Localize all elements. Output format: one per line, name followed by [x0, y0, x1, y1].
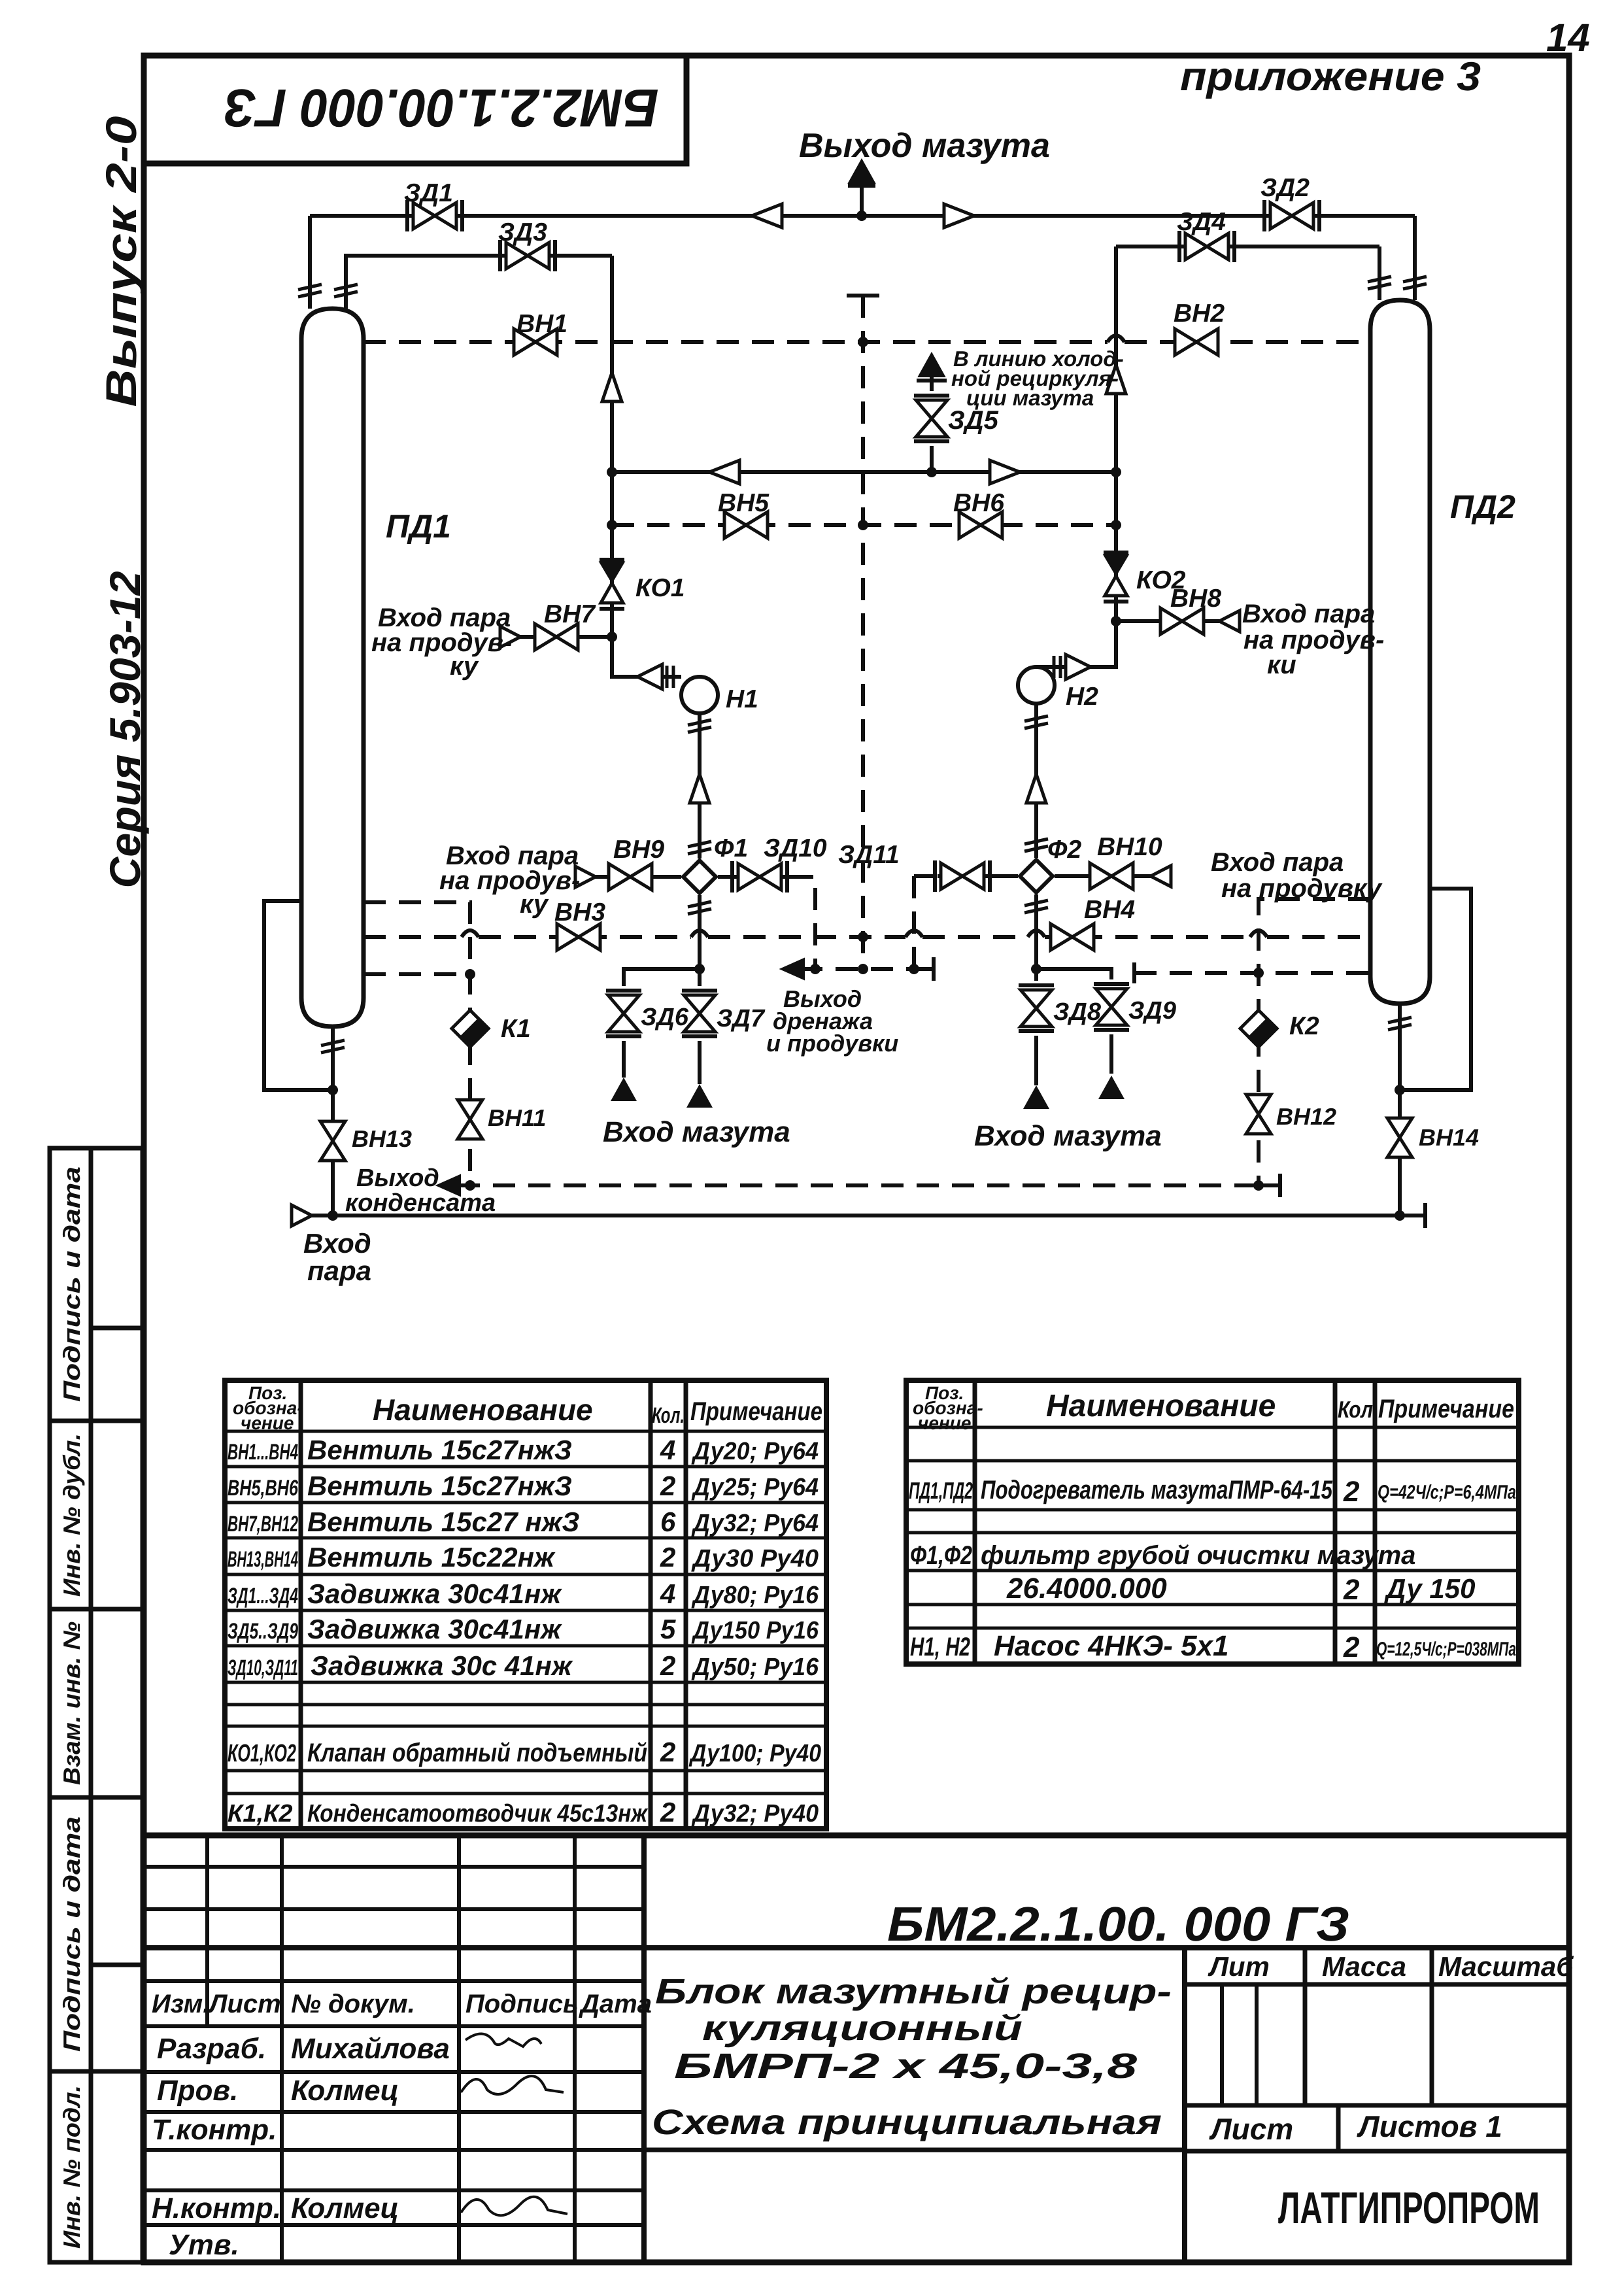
- pump line arrow right: [1026, 774, 1046, 803]
- gate valve ЗД7: [682, 991, 717, 1036]
- check valve КО1: [600, 560, 624, 609]
- svg-text:Н1: Н1: [726, 685, 758, 713]
- dashed: ПД1 upper jacket drain: [364, 902, 470, 1185]
- svg-text:Утв.: Утв.: [169, 2229, 239, 2261]
- svg-text:Схема принципиальная: Схема принципиальная: [652, 2103, 1162, 2142]
- gate valve ЗД10: [732, 861, 787, 892]
- valve ВН10: [1090, 863, 1133, 889]
- svg-text:ВН7,ВН12: ВН7,ВН12: [228, 1512, 298, 1537]
- svg-text:Ду20; Ру64: Ду20; Ру64: [691, 1438, 819, 1465]
- pipe: fuel oil outlet header: [310, 214, 1415, 218]
- valve ВН6: [959, 512, 1002, 538]
- svg-text:Ф2: Ф2: [1047, 836, 1081, 864]
- svg-text:ЗД6: ЗД6: [641, 1004, 689, 1031]
- signatures: [465, 2033, 541, 2047]
- pipe: ЗД11 stub: [938, 874, 1018, 878]
- svg-text:ЗД1: ЗД1: [404, 179, 453, 207]
- svg-text:2: 2: [660, 1470, 675, 1501]
- svg-text:ЗД5..ЗД9: ЗД5..ЗД9: [228, 1619, 298, 1644]
- pipe: fuel inlet ЗД6 ЗД7: [624, 969, 700, 1084]
- junction: ВН6 line at right riser: [1111, 520, 1121, 530]
- flange ПД2 nozzle 1: [1368, 277, 1391, 289]
- svg-text:Выпуск 2-0: Выпуск 2-0: [97, 116, 145, 407]
- svg-text:ВН9: ВН9: [613, 836, 664, 864]
- pipe: fuel oil outlet branch up: [848, 182, 875, 216]
- cap tick on condensate line: [1259, 1174, 1280, 1197]
- svg-text:БМ2.2.1.00.000 ГЗ: БМ2.2.1.00.000 ГЗ: [224, 78, 659, 137]
- junction: ВН1-ВН2 line at center header: [858, 337, 868, 347]
- dashed: ПД1 lower jacket drain: [364, 972, 470, 976]
- svg-text:Q=12,5Ч/с;Р=038МПа: Q=12,5Ч/с;Р=038МПа: [1376, 1639, 1516, 1660]
- outlet arrow recirc up: [919, 353, 945, 377]
- svg-text:Масса: Масса: [1322, 1951, 1406, 1982]
- inlet arrow ВН10: [1151, 866, 1171, 887]
- svg-text:К1: К1: [501, 1015, 531, 1043]
- svg-text:5: 5: [660, 1614, 676, 1644]
- svg-text:Ду50; Ру16: Ду50; Ру16: [691, 1654, 819, 1681]
- fuel inlet arrow ЗД8: [1023, 1085, 1049, 1109]
- pipe: ПД2 condensate drop: [1398, 1004, 1402, 1215]
- valve ВН1: [514, 329, 557, 355]
- jacket box ПД1: [264, 901, 333, 1090]
- gate valve ЗД8: [1019, 985, 1054, 1031]
- dashed: ВН1-ВН2 upper drain line: [364, 340, 1370, 344]
- valve ВН14: [1387, 1118, 1412, 1157]
- valve ВН9: [609, 864, 652, 890]
- svg-text:Вентиль 15с22нж: Вентиль 15с22нж: [307, 1542, 556, 1572]
- junction: drain line at ЗД11 drop: [909, 964, 919, 974]
- svg-text:2: 2: [660, 1797, 675, 1827]
- svg-text:Подпись и дата: Подпись и дата: [58, 1816, 85, 2052]
- gate valve ЗД4: [1179, 231, 1234, 262]
- pipe: ЗД10 stub: [718, 875, 791, 879]
- dashed: central blowdown header: [861, 296, 865, 969]
- svg-text:ЛАТГИПРОПРОМ: ЛАТГИПРОПРОМ: [1278, 2183, 1540, 2233]
- svg-text:2: 2: [660, 1737, 675, 1767]
- svg-text:ЗД10: ЗД10: [764, 834, 827, 862]
- svg-text:ВН10: ВН10: [1097, 833, 1162, 861]
- dashed pipes: [364, 296, 1370, 1185]
- svg-text:Примечание: Примечание: [1378, 1395, 1514, 1423]
- svg-text:на продув-: на продув-: [371, 628, 512, 657]
- pipe: ВН10 steam purge line: [1055, 874, 1151, 878]
- svg-text:2: 2: [660, 1542, 675, 1572]
- steam trap К2: [1240, 1010, 1277, 1047]
- svg-text:14: 14: [1546, 16, 1590, 59]
- stamp labels: [58, 1166, 85, 2249]
- valve ВН5: [724, 512, 768, 538]
- svg-text:Дата: Дата: [579, 1990, 652, 2018]
- svg-text:ЗД1...ЗД4: ЗД1...ЗД4: [228, 1584, 298, 1608]
- flow arrow recirc left: [709, 460, 739, 484]
- flange ПД1 nozzle 2: [334, 284, 358, 297]
- pipe: pump Н2 discharge column: [1034, 704, 1038, 858]
- valve ВН12: [1246, 1095, 1271, 1134]
- svg-text:БМРП-2 х 45,0-3,8: БМРП-2 х 45,0-3,8: [674, 2047, 1137, 2086]
- svg-text:Подпись: Подпись: [465, 1990, 579, 2018]
- pump Н2 suction check: [1054, 654, 1091, 679]
- svg-text:Выход: Выход: [356, 1164, 439, 1192]
- dashed: ПД2 lower jacket drain with cap: [1134, 971, 1370, 975]
- junction: drain line at center header: [858, 964, 868, 974]
- gate valve ЗД3: [500, 240, 555, 271]
- svg-text:Инв. № подл.: Инв. № подл.: [58, 2085, 85, 2249]
- svg-text:ВН5: ВН5: [718, 489, 770, 517]
- dashed: drain collect line: [800, 967, 914, 971]
- inlet arrow steam main: [292, 1205, 312, 1226]
- svg-text:Ду30 Ру40: Ду30 Ру40: [691, 1545, 819, 1572]
- svg-text:ЗД10,ЗД11: ЗД10,ЗД11: [228, 1656, 298, 1680]
- inlet arrow ВН9: [575, 866, 596, 887]
- pipe: Ф1 outlet down: [698, 895, 702, 969]
- pump Н2: [1018, 667, 1055, 704]
- check valve КО2: [1104, 552, 1128, 602]
- junction: drain line at ЗД10 drop: [810, 964, 820, 974]
- inlet arrow ВН8: [1219, 611, 1240, 632]
- filter Ф2: [1020, 860, 1053, 892]
- fuel inlet arrow ЗД7: [686, 1084, 713, 1108]
- svg-text:Вход пара: Вход пара: [1242, 600, 1375, 628]
- pipe: ЗД4 line: [1116, 246, 1379, 300]
- gate valve ЗД1: [407, 200, 462, 231]
- flange Ф1 inlet: [688, 841, 711, 854]
- svg-text:Колмец: Колмец: [291, 2192, 399, 2224]
- flange Ф2 inlet: [1024, 839, 1048, 851]
- svg-text:ПД1,ПД2: ПД1,ПД2: [909, 1477, 973, 1504]
- junction: К1 line at condensate header: [465, 1180, 475, 1191]
- svg-text:ЗД11: ЗД11: [838, 841, 900, 869]
- svg-text:ЗД2: ЗД2: [1260, 174, 1310, 202]
- svg-text:Насос 4НКЭ- 5х1: Насос 4НКЭ- 5х1: [994, 1630, 1229, 1662]
- svg-text:Лит: Лит: [1208, 1951, 1270, 1982]
- junction: ПД2 drop at steam main: [1395, 1210, 1405, 1221]
- valve ВН2: [1175, 329, 1218, 355]
- svg-text:пара: пара: [307, 1255, 371, 1286]
- svg-text:Ду32; Ру64: Ду32; Ру64: [691, 1510, 819, 1537]
- junction: ВН8 tee: [1111, 616, 1121, 626]
- pump line arrow left: [690, 774, 709, 803]
- svg-text:ВН1...ВН4: ВН1...ВН4: [228, 1440, 298, 1465]
- wire: ПД2 right nozzle riser: [1413, 216, 1417, 300]
- gate valve ЗД11: [935, 860, 990, 892]
- junction: ВН5 line at left riser: [607, 520, 617, 530]
- svg-text:Лист: Лист: [207, 1990, 281, 2018]
- svg-text:Листов 1: Листов 1: [1357, 2109, 1502, 2143]
- wire: ПД1 left nozzle riser: [308, 216, 312, 309]
- fuel inlet arrow ЗД6: [611, 1078, 637, 1101]
- svg-text:ВН13: ВН13: [352, 1125, 412, 1152]
- pipe: Ф2 outlet down: [1034, 894, 1038, 969]
- svg-text:Ду80; Ру16: Ду80; Ру16: [691, 1582, 819, 1609]
- pipe: steam inlet main: [307, 1203, 1425, 1228]
- outlet arrow fuel oil up: [849, 160, 875, 183]
- svg-text:Q=42Ч/с;Р=6,4МПа: Q=42Ч/с;Р=6,4МПа: [1378, 1482, 1516, 1503]
- schematic labels: [303, 127, 1515, 1286]
- svg-text:на продувку: на продувку: [1221, 874, 1383, 903]
- svg-text:ВН6: ВН6: [953, 489, 1004, 517]
- flange Ф1 outlet: [688, 902, 711, 914]
- svg-text:Ду 150: Ду 150: [1384, 1573, 1475, 1604]
- svg-text:КО1,КО2: КО1,КО2: [228, 1740, 296, 1767]
- flow arrow left header: [752, 204, 782, 228]
- junction: ПД1 drop at jacket: [328, 1085, 338, 1095]
- svg-text:ЗД3: ЗД3: [498, 218, 547, 246]
- svg-text:2: 2: [1343, 1574, 1360, 1606]
- svg-text:ВН8: ВН8: [1170, 585, 1221, 613]
- svg-text:Пров.: Пров.: [157, 2075, 238, 2107]
- dashed: condensate outlet line: [458, 1183, 1259, 1187]
- svg-text:Ду100; Ру40: Ду100; Ру40: [688, 1740, 821, 1767]
- drain outlet arrow: [781, 959, 804, 979]
- svg-text:куляционный: куляционный: [702, 2009, 1023, 2048]
- pipe: ВН8 steam purge line: [1116, 619, 1219, 623]
- flange ПД2 nozzle 2: [1403, 277, 1427, 289]
- svg-text:Выход мазута: Выход мазута: [799, 127, 1050, 165]
- cap tick left end: [1132, 962, 1136, 983]
- junction: ПД1 drop at steam main: [328, 1210, 338, 1221]
- svg-text:Изм.: Изм.: [152, 1990, 210, 2018]
- svg-text:ЗД7: ЗД7: [717, 1005, 766, 1032]
- svg-text:Вентиль 15с27 нжЗ: Вентиль 15с27 нжЗ: [307, 1506, 580, 1537]
- svg-text:Задвижка 30с41нж: Задвижка 30с41нж: [307, 1614, 562, 1644]
- svg-text:Ф1,Ф2: Ф1,Ф2: [910, 1541, 972, 1570]
- riser arrow left: [602, 373, 622, 401]
- junction: ВН3-ВН4 line at center header: [858, 932, 868, 942]
- svg-text:Колмец: Колмец: [291, 2075, 399, 2107]
- jump arcs on dashed lines: [462, 335, 1267, 937]
- svg-text:и продувки: и продувки: [766, 1030, 898, 1057]
- flow arrow right header: [944, 204, 974, 228]
- svg-text:Т.контр.: Т.контр.: [152, 2114, 277, 2146]
- svg-text:Блок мазутный рецир-: Блок мазутный рецир-: [655, 1972, 1172, 2011]
- svg-text:№ докум.: № докум.: [291, 1990, 415, 2018]
- steam trap К1: [452, 1010, 488, 1047]
- svg-text:ВН3: ВН3: [554, 898, 605, 926]
- svg-text:Ф1: Ф1: [714, 834, 748, 862]
- svg-text:Наименование: Наименование: [373, 1393, 593, 1427]
- svg-text:Вход пара: Вход пара: [1211, 848, 1344, 877]
- svg-text:Подпись и дата: Подпись и дата: [58, 1166, 85, 1402]
- flange ПД2 bottom: [1388, 1017, 1412, 1030]
- svg-text:К1,К2: К1,К2: [228, 1800, 293, 1827]
- pipe: ВН9 steam purge line: [595, 875, 681, 879]
- svg-text:26.4000.000: 26.4000.000: [1006, 1572, 1167, 1605]
- junction: Ф2 outlet tee: [1031, 964, 1041, 974]
- svg-text:ВН14: ВН14: [1419, 1124, 1479, 1151]
- riser arrow right: [1106, 365, 1126, 394]
- pump Н1: [681, 677, 718, 713]
- valve ВН4: [1051, 924, 1094, 950]
- svg-text:конденсата: конденсата: [345, 1189, 496, 1217]
- svg-text:Подогреватель мазутаПМР-64-15: Подогреватель мазутаПМР-64-15: [981, 1476, 1333, 1504]
- flange pump Н1 discharge: [688, 720, 711, 732]
- top-left stamp box: [144, 56, 686, 163]
- junction: recirc at ЗД5 branch: [926, 467, 937, 477]
- svg-text:Михайлова: Михайлова: [291, 2033, 450, 2065]
- svg-text:ки: ки: [1267, 651, 1296, 679]
- svg-text:на продув-: на продув-: [1243, 626, 1384, 654]
- svg-text:Н2: Н2: [1066, 683, 1098, 711]
- junction: К1 line at lower jacket drain: [465, 969, 475, 979]
- valve ВН7: [535, 624, 578, 650]
- svg-text:Вход: Вход: [303, 1228, 371, 1259]
- svg-text:БМ2.2.1.00. 000 ГЗ: БМ2.2.1.00. 000 ГЗ: [887, 1897, 1349, 1951]
- filter Ф1: [683, 860, 716, 893]
- svg-text:ВН2: ВН2: [1174, 299, 1225, 328]
- svg-text:ВН1: ВН1: [516, 310, 567, 338]
- flange ПД1 nozzle 1: [298, 284, 322, 297]
- svg-text:чение: чение: [918, 1413, 971, 1433]
- svg-text:Кол.: Кол.: [652, 1403, 685, 1428]
- drain cap right of ЗД11: [914, 957, 934, 981]
- valve ВН13: [320, 1121, 345, 1161]
- svg-text:ВН5,ВН6: ВН5,ВН6: [228, 1476, 299, 1501]
- svg-text:ЗД8: ЗД8: [1053, 998, 1102, 1026]
- svg-text:Задвижка 30с41нж: Задвижка 30с41нж: [307, 1578, 562, 1609]
- svg-text:приложение 3: приложение 3: [1180, 54, 1481, 99]
- gate valve ЗД2: [1264, 200, 1319, 231]
- svg-text:К2: К2: [1289, 1012, 1319, 1040]
- junction: recirc at right riser: [1111, 467, 1121, 477]
- svg-text:Лист: Лист: [1209, 2112, 1293, 2146]
- svg-text:Конденсатоотводчик 45с13нж: Конденсатоотводчик 45с13нж: [307, 1800, 649, 1827]
- svg-text:Вход мазута: Вход мазута: [974, 1120, 1162, 1152]
- svg-text:Наименование: Наименование: [1046, 1389, 1276, 1423]
- svg-text:ЗД4: ЗД4: [1177, 208, 1226, 236]
- jacket box ПД2: [1400, 889, 1471, 1090]
- gate valve ЗД9: [1094, 984, 1129, 1030]
- junction: outlet header tee: [856, 211, 867, 221]
- pump Н1 suction check: [637, 664, 673, 689]
- junction: recirc at left riser: [607, 467, 617, 477]
- svg-text:2: 2: [1343, 1631, 1360, 1663]
- svg-text:4: 4: [660, 1578, 675, 1609]
- condensate outlet arrow: [437, 1175, 460, 1196]
- svg-text:ВН13,ВН14: ВН13,ВН14: [228, 1547, 298, 1572]
- pipe: left riser: [612, 256, 681, 677]
- pipe: ВН7 steam purge line: [520, 635, 612, 639]
- svg-text:Вход мазута: Вход мазута: [603, 1116, 790, 1148]
- pipe: right riser: [1036, 246, 1116, 667]
- svg-text:ВН12: ВН12: [1276, 1103, 1336, 1130]
- pipe: recirculation cross line: [612, 470, 1116, 474]
- cap bar on central blowdown header: [847, 294, 879, 297]
- flange pump Н2 discharge: [1024, 716, 1048, 728]
- left stamp column boxes: [50, 1148, 143, 2262]
- svg-text:ку: ку: [520, 890, 549, 919]
- junction: ВН5-ВН6 line at center header: [858, 520, 868, 530]
- pipe: ПД1 condensate drop: [331, 1027, 335, 1215]
- gate valve ЗД5: [914, 396, 949, 441]
- dashed: ПД2 upper jacket drain: [1259, 899, 1370, 1185]
- inlet arrow ВН7: [500, 626, 520, 647]
- dashed: ЗД10 drop: [791, 877, 815, 969]
- svg-text:2: 2: [1343, 1476, 1360, 1508]
- junction: ВН7 tee: [607, 632, 617, 642]
- pipe: fuel inlet ЗД8 ЗД9: [1036, 969, 1111, 1085]
- svg-text:Масштаб: Масштаб: [1438, 1951, 1574, 1982]
- dashed: ВН3-ВН4 drain line: [364, 935, 1370, 939]
- junction: ПД2 drop at jacket: [1395, 1085, 1405, 1095]
- svg-text:КО1: КО1: [635, 574, 685, 602]
- fuel inlet arrow ЗД9: [1098, 1076, 1125, 1099]
- svg-text:ПД2: ПД2: [1450, 488, 1515, 525]
- flow arrow recirc right: [990, 460, 1020, 484]
- svg-text:Ду150 Ру16: Ду150 Ру16: [691, 1617, 819, 1644]
- svg-text:ПД1: ПД1: [386, 508, 451, 545]
- valve ВН11: [458, 1100, 482, 1139]
- svg-text:Серия 5.903-12: Серия 5.903-12: [101, 571, 149, 888]
- svg-text:ВН11: ВН11: [488, 1104, 546, 1131]
- flange ПД1 bottom: [321, 1040, 345, 1053]
- svg-text:2: 2: [660, 1650, 675, 1681]
- svg-text:фильтр грубой очистки мазута: фильтр грубой очистки мазута: [981, 1541, 1415, 1570]
- dashed: ЗД11 drop: [914, 876, 938, 969]
- svg-text:Инв. № дубл.: Инв. № дубл.: [58, 1433, 85, 1597]
- junction: Ф1 outlet tee: [694, 964, 705, 974]
- svg-text:ЗД9: ЗД9: [1128, 997, 1176, 1025]
- svg-text:Задвижка 30с 41нж: Задвижка 30с 41нж: [311, 1650, 573, 1681]
- svg-text:Кол: Кол: [1338, 1396, 1373, 1423]
- dashed: ВН5-ВН6 cross line: [612, 523, 1116, 527]
- valve ВН8: [1160, 608, 1204, 634]
- svg-text:Разраб.: Разраб.: [157, 2033, 266, 2065]
- svg-text:Примечание: Примечание: [690, 1397, 822, 1426]
- svg-text:Ду32; Ру40: Ду32; Ру40: [691, 1800, 819, 1827]
- junction: К2 line at condensate header: [1253, 1180, 1264, 1191]
- heater vessel ПД1: [301, 309, 364, 1027]
- svg-text:ЗД5: ЗД5: [948, 406, 999, 435]
- svg-text:Вентиль 15с27нжЗ: Вентиль 15с27нжЗ: [307, 1435, 572, 1465]
- junction: К2 line at lower jacket drain: [1253, 968, 1264, 978]
- svg-text:ВН7: ВН7: [544, 600, 596, 628]
- svg-text:Вентиль 15с27нжЗ: Вентиль 15с27нжЗ: [307, 1470, 572, 1501]
- gate valve ЗД6: [606, 991, 641, 1036]
- valve ВН3: [557, 924, 600, 950]
- flange Ф2 outlet: [1024, 900, 1048, 913]
- svg-text:Н.контр.: Н.контр.: [152, 2192, 281, 2224]
- svg-text:Клапан обратный подъемный: Клапан обратный подъемный: [307, 1739, 647, 1767]
- svg-text:ВН4: ВН4: [1084, 896, 1135, 924]
- svg-text:чение: чение: [241, 1413, 294, 1433]
- svg-text:на продув-: на продув-: [439, 866, 580, 895]
- svg-text:Н1, Н2: Н1, Н2: [910, 1633, 970, 1661]
- pipe: ЗД5 branch: [917, 377, 947, 472]
- svg-text:4: 4: [660, 1435, 675, 1465]
- svg-text:Взам. инв. №: Взам. инв. №: [58, 1622, 85, 1785]
- svg-text:ку: ку: [450, 652, 479, 681]
- pipe: ЗД3 line: [346, 256, 612, 309]
- svg-text:6: 6: [660, 1506, 676, 1537]
- heater vessel ПД2: [1370, 300, 1430, 1004]
- svg-text:Ду25; Ру64: Ду25; Ру64: [691, 1474, 819, 1501]
- pipe: pump Н1 discharge column: [698, 713, 702, 858]
